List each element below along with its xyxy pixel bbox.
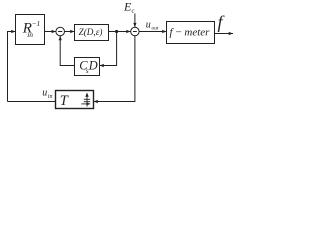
- arrowhead into Z block: [70, 30, 74, 33]
- block R_in^-1: [16, 15, 45, 45]
- wire left rail from bottom wire up to R_in input: [8, 32, 16, 102]
- arrowhead up into junction 1: [59, 36, 62, 40]
- wire C_sD output left and up into junction 1: [60, 36, 74, 66]
- arrowhead into R_in block: [11, 30, 15, 33]
- svg-text:−1: −1: [32, 19, 41, 28]
- wire junction 2 to f-meter: [139, 31, 166, 33]
- output wire f: [215, 33, 234, 35]
- svg-text:u: u: [146, 19, 151, 30]
- arrowhead output f: [229, 32, 233, 35]
- arrowhead into C_sD right side: [100, 64, 104, 67]
- arrowhead into f-meter: [162, 30, 166, 33]
- block T (thermostat): [56, 91, 94, 109]
- arrowhead right of T symbol: [87, 103, 91, 106]
- arrowhead into summing junction 1: [52, 30, 56, 33]
- wire junction 2 down and left into T block: [94, 36, 135, 102]
- label u_in: [42, 88, 52, 101]
- svg-text:Z(D,ε): Z(D,ε): [79, 27, 103, 37]
- summing junction 1: [56, 27, 65, 36]
- svg-text:T: T: [60, 93, 69, 109]
- svg-text:u: u: [42, 88, 47, 99]
- wire node down to C_sD block: [100, 32, 117, 66]
- wire junction 1 to Z block: [65, 31, 75, 33]
- arrowhead up of T symbol: [85, 93, 88, 97]
- arrowhead into summing junction 2: [126, 30, 130, 33]
- wire T output to left rail: [8, 101, 56, 103]
- svg-text:D: D: [88, 58, 98, 72]
- svg-text:in: in: [48, 94, 53, 100]
- wire Z output to summing junction 2: [109, 31, 131, 33]
- wire E_c down into junction 2: [134, 14, 136, 28]
- node dot on Z output: [115, 30, 118, 33]
- block f-meter: [167, 22, 215, 44]
- svg-text:out: out: [152, 26, 160, 32]
- svg-text:in: in: [27, 30, 33, 39]
- svg-text:c: c: [132, 7, 135, 14]
- adjustment arrow symbol inside T block: [81, 95, 90, 106]
- arrowhead into T block right side: [94, 100, 98, 103]
- block Z(D,e): [75, 25, 109, 41]
- summing junction 2: [131, 27, 139, 35]
- wire R_in output to summing junction 1: [45, 31, 56, 33]
- label u_out: [146, 19, 159, 31]
- label E_c: [123, 0, 135, 14]
- arrowhead down into junction 2: [133, 23, 136, 27]
- svg-text:f − meter: f − meter: [170, 26, 211, 38]
- block C_sD: [75, 58, 100, 76]
